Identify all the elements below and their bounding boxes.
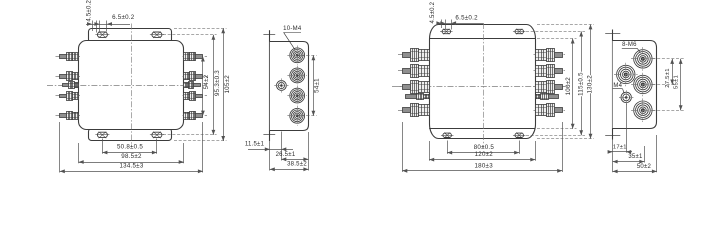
terminal B L2 right centerline	[534, 70, 567, 72]
dimension 50.8±0.5 (view A)	[102, 152, 156, 154]
slot centerline tick bottom (side B)	[605, 135, 620, 137]
svg-text:115±0.5: 115±0.5	[578, 72, 585, 96]
svg-text:180±3: 180±3	[474, 162, 493, 169]
svg-text:26.5±1: 26.5±1	[276, 152, 296, 158]
terminal A L3 right	[196, 95, 203, 98]
terminal A L3 left	[60, 95, 67, 98]
mounting slot A top-right	[152, 32, 162, 37]
svg-text:6.5±0.2: 6.5±0.2	[455, 14, 478, 21]
terminal circle A3 (10-M4)	[290, 88, 305, 103]
slot centerline tick top (side B)	[605, 33, 620, 35]
mounting slot A bottom-right	[152, 132, 162, 137]
dimension 95.3±0.3 slot spacing (view A)	[213, 35, 215, 135]
ground stud B left	[406, 95, 417, 99]
terminal circle B2 (8-M6)	[617, 65, 635, 83]
mounting slot B top-right	[515, 29, 524, 33]
terminal A L1 right	[196, 55, 203, 59]
slot centerline tick top (side A)	[263, 34, 275, 36]
filter B bottom seam line	[429, 128, 535, 130]
dimension 80±0.5 (view B)	[447, 152, 519, 154]
filter B side body	[613, 41, 657, 129]
terminal A L4 left	[60, 114, 67, 118]
terminal circle B1 (8-M6)	[634, 50, 652, 68]
terminal A L4 right	[196, 114, 203, 118]
terminal A L1 left centerline	[56, 56, 81, 58]
terminal B L4 right centerline	[534, 110, 567, 112]
svg-text:100±2: 100±2	[565, 77, 572, 96]
terminal B L2 right	[555, 69, 563, 74]
svg-text:54±2: 54±2	[203, 74, 210, 89]
filter A vertical centerline	[131, 24, 133, 148]
terminal B L1 right centerline	[534, 54, 567, 56]
terminal B L2 left	[403, 69, 411, 74]
terminal B L4 right	[555, 108, 563, 113]
dimension 98.5±2 (view A)	[79, 162, 184, 164]
filter B horizontal centerline	[392, 86, 570, 88]
dimension 35±1 (side B)	[613, 161, 645, 163]
terminal A L1 left	[60, 55, 67, 59]
svg-text:38.5±2: 38.5±2	[287, 162, 307, 168]
dimension 115±0.5 slot spacing (view B)	[581, 32, 583, 136]
terminal B L3 right	[555, 85, 563, 90]
dimension 54±1 terminal span (side A)	[297, 55, 316, 57]
mounting slot B bottom-left	[443, 133, 452, 137]
terminal B L2 left centerline	[398, 70, 431, 72]
svg-text:80±0.5: 80±0.5	[474, 144, 495, 151]
svg-text:54±1: 54±1	[314, 78, 321, 93]
svg-text:27.5±1: 27.5±1	[665, 68, 671, 87]
dimension 55±1 circle span (side B)	[680, 59, 682, 110]
svg-text:6.5±0.2: 6.5±0.2	[112, 14, 135, 21]
dimension 4.5±0.2 (view B)	[441, 20, 443, 29]
svg-text:120±2: 120±2	[475, 151, 494, 158]
dimension 105±2 overall height (view A)	[223, 28, 225, 141]
terminal A L2 left centerline	[56, 76, 81, 78]
filter B top seam line	[429, 38, 535, 40]
svg-text:50.8±0.5: 50.8±0.5	[117, 144, 143, 151]
terminal B L1 left	[403, 53, 411, 58]
terminal A L1 right centerline	[183, 56, 208, 58]
ground stud circle B (M4)	[621, 92, 631, 102]
extension lines bottom (view B)	[447, 141, 449, 154]
terminal B L4 left	[403, 108, 411, 113]
ground stud B right	[549, 95, 559, 99]
terminal B L3 left	[403, 85, 411, 90]
svg-text:17±1: 17±1	[613, 144, 627, 150]
dimension 120±2 (view B)	[429, 159, 535, 161]
extension lines bottom (side B)	[626, 104, 628, 153]
ground stud A right	[194, 84, 201, 87]
svg-text:134.5±3: 134.5±3	[119, 163, 143, 170]
filter A side mounting plane line	[269, 30, 271, 141]
terminal B L1 left centerline	[398, 54, 431, 56]
svg-text:M4: M4	[613, 83, 622, 89]
dimension 4.5±0.2 slot offset (view A)	[92, 21, 94, 32]
extension lines bottom (view A)	[102, 139, 104, 154]
mounting slot B top-left	[442, 29, 451, 33]
terminal A L2 left	[60, 75, 67, 79]
dimension 17±1 (side B)	[608, 151, 632, 153]
dimension 50±2 (side B)	[613, 171, 657, 173]
terminal B L1 right	[555, 53, 563, 58]
extension lines right (view A)	[174, 28, 227, 30]
svg-text:95.3±0.3: 95.3±0.3	[214, 70, 221, 96]
svg-text:130±2: 130±2	[587, 75, 594, 94]
dimension 100±2 body height (view B)	[572, 39, 574, 129]
terminal B L3 right centerline	[534, 86, 567, 88]
svg-text:35±1: 35±1	[628, 154, 643, 160]
filter A side body	[270, 42, 309, 131]
svg-text:10-M4: 10-M4	[283, 26, 302, 32]
filter B vertical centerline	[483, 23, 485, 148]
dimension 11.5±1 (side A)	[248, 149, 293, 151]
terminal A L2 right	[196, 75, 203, 79]
svg-text:4.5±0.2: 4.5±0.2	[87, 0, 93, 22]
ground stud A left	[63, 84, 69, 87]
filter A body	[79, 41, 184, 130]
dimension 54±2 terminal span (view A)	[202, 57, 204, 116]
mounting slot B bottom-right	[515, 133, 524, 137]
filter A horizontal centerline	[47, 85, 206, 87]
dimension 38.5±2 (side A)	[270, 169, 309, 171]
filter A bottom mounting flange tab	[89, 129, 172, 141]
terminal B L4 left centerline	[398, 110, 431, 112]
extension lines bottom (side A)	[281, 132, 283, 161]
dimension 180±3 (view B)	[402, 170, 562, 172]
svg-text:98.5±2: 98.5±2	[121, 153, 142, 160]
svg-text:11.5±1: 11.5±1	[245, 141, 265, 147]
mounting slot A top-left	[97, 32, 107, 37]
svg-text:105±2: 105±2	[224, 75, 231, 94]
terminal circle B4 (8-M6)	[634, 101, 652, 119]
dimension 134.5±3 (view A)	[60, 171, 203, 173]
dimension 130±2 overall height (view B)	[590, 24, 592, 138]
svg-text:50±2: 50±2	[637, 164, 652, 170]
terminal circle A4 (10-M4)	[290, 108, 305, 123]
terminal circle B3 (8-M6)	[634, 75, 652, 93]
dimension 27.5±1 circle spacing (side B)	[653, 58, 685, 60]
filter A top mounting flange tab	[89, 29, 172, 43]
terminal B L3 left centerline	[398, 86, 431, 88]
filter B outer case	[430, 25, 536, 139]
svg-text:55±1: 55±1	[674, 75, 680, 89]
filter B side mounting plane line	[612, 30, 614, 140]
terminal A L4 right centerline	[183, 115, 208, 117]
terminal circle A2 (10-M4)	[290, 68, 305, 83]
extension lines right (view B)	[537, 24, 594, 26]
svg-text:4.5±0.2: 4.5±0.2	[430, 1, 436, 23]
svg-text:8-M6: 8-M6	[622, 42, 637, 48]
terminal A L4 left centerline	[56, 115, 81, 117]
ground stud circle A (side)	[277, 81, 287, 91]
dimension 26.5±1 (side A)	[281, 159, 308, 161]
slot centerline tick bottom (side A)	[263, 134, 275, 136]
terminal circle A1 (10-M4)	[290, 48, 305, 63]
mounting slot A bottom-left	[97, 132, 107, 137]
terminal A L3 right centerline	[183, 95, 208, 97]
terminal A L3 left centerline	[56, 95, 81, 97]
terminal A L2 right centerline	[183, 76, 208, 78]
